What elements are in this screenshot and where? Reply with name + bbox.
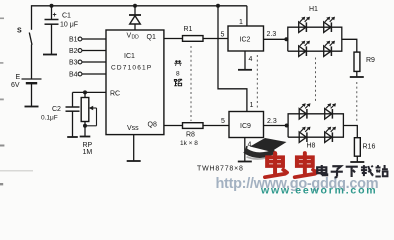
svg-text:10 μF: 10 μF	[60, 22, 78, 29]
ground (IC2 pin4)	[238, 69, 252, 71]
svg-text:Vss: Vss	[127, 125, 139, 132]
IC1 box CD71061P	[106, 30, 164, 135]
svg-text:B3: B3	[69, 60, 78, 67]
svg-text:8: 8	[176, 71, 180, 78]
capacitor C1	[51, 6, 53, 20]
top supply rail	[32, 5, 247, 7]
svg-text:H1: H1	[309, 6, 318, 13]
capacitor C2	[72, 92, 74, 107]
dashed repetition line (H1..H8)	[315, 58, 317, 104]
svg-text:1M: 1M	[83, 149, 93, 156]
wire switch to battery	[31, 45, 33, 80]
watermark graduation cap	[245, 151, 275, 156]
wire H8 to R16	[343, 126, 357, 138]
svg-text:5: 5	[221, 118, 225, 125]
diode (VDD protection)	[134, 6, 136, 15]
svg-text:www.eeworm.com: www.eeworm.com	[260, 185, 377, 196]
dashed repetition line (R1..R8)	[190, 46, 192, 121]
node (rail/diode junction)	[133, 4, 137, 8]
resistor R9	[354, 52, 360, 71]
svg-text:C2: C2	[52, 106, 61, 113]
svg-text:B2: B2	[69, 48, 78, 55]
svg-text:+: +	[53, 12, 57, 19]
IC9 box	[229, 112, 264, 138]
wire IC9 pin2.3 to H8	[264, 125, 289, 127]
svg-text:B4: B4	[69, 72, 78, 79]
svg-text:R9: R9	[366, 57, 375, 64]
svg-text:DD: DD	[132, 35, 140, 41]
svg-text:2.3: 2.3	[267, 31, 277, 38]
svg-text:1: 1	[250, 102, 254, 109]
RC wire (C2/RP net to IC1)	[73, 91, 107, 93]
svg-text:IC2: IC2	[240, 37, 251, 44]
node (rail/C1 junction)	[50, 4, 54, 8]
node (RP top)	[83, 90, 87, 94]
svg-text:S: S	[17, 28, 22, 35]
svg-text:Q8: Q8	[148, 122, 157, 129]
wire left vertical upper	[31, 5, 33, 30]
svg-text:1: 1	[239, 19, 243, 26]
watermark CJK site name: 载	[361, 165, 373, 176]
ground (C2)	[67, 136, 78, 138]
svg-text:RC: RC	[110, 91, 120, 98]
wire R9 to ground	[356, 71, 358, 76]
node (H1 input)	[284, 37, 288, 41]
potentiometer RP 1M	[84, 92, 86, 97]
watermark red bug char 1	[265, 153, 287, 177]
watermark CJK site name: 子	[331, 166, 343, 177]
wire rail corner into IC2 pin1	[246, 6, 248, 26]
resistor R1	[183, 36, 204, 42]
node (H8 input)	[285, 124, 289, 128]
wire IC2 pin4 to ground	[244, 51, 246, 70]
svg-text:2.3: 2.3	[267, 118, 277, 125]
wire IC9 pin4 to ground	[244, 138, 246, 162]
svg-text:IC1: IC1	[124, 53, 135, 60]
svg-text:C1: C1	[62, 13, 71, 20]
switch S	[29, 33, 32, 45]
svg-text:6V: 6V	[11, 82, 20, 89]
wire R1 to IC2 pin5	[203, 38, 228, 40]
svg-text:TWH8778×8: TWH8778×8	[197, 166, 244, 173]
node (rail/IC9 feed junction)	[216, 4, 220, 8]
svg-text:R1: R1	[184, 26, 193, 33]
wire Q8 to R8	[164, 125, 183, 127]
dashed repetition line (IC2..IC9)	[256, 55, 258, 108]
resistor R16	[354, 138, 360, 157]
wire H1 to R9	[342, 39, 357, 52]
ground (R9)	[350, 76, 364, 78]
wire Vss to ground	[133, 135, 135, 161]
svg-text:H8: H8	[307, 143, 316, 150]
共8路 annotation	[174, 60, 181, 65]
wire IC2 pin2.3 to H1	[264, 38, 288, 40]
svg-text:R16: R16	[363, 144, 376, 151]
watermark CJK site name: 电	[317, 165, 327, 175]
scan artifacts	[0, 18, 4, 20]
svg-text:0.1μF: 0.1μF	[41, 115, 58, 122]
svg-text:5: 5	[221, 32, 225, 39]
svg-text:E: E	[16, 74, 21, 81]
wire battery to ground	[31, 83, 33, 106]
svg-text:R8: R8	[186, 132, 195, 139]
wire Q1 to R1	[164, 38, 183, 40]
ground (IC9 pin4)	[238, 161, 252, 163]
ground (Vss)	[127, 160, 141, 162]
dashed repetition line (R9..R16)	[356, 82, 358, 123]
IC2 box	[228, 26, 264, 51]
svg-text:4: 4	[248, 142, 252, 149]
svg-text:1k × 8: 1k × 8	[180, 140, 198, 147]
watermark red bug char 2	[295, 153, 317, 177]
ground (RP)	[80, 136, 91, 138]
ground (R16)	[350, 161, 364, 163]
ground (battery)	[25, 106, 39, 108]
watermark CJK site name: 下	[346, 167, 358, 177]
svg-text:RP: RP	[83, 142, 93, 149]
svg-text:B1: B1	[69, 37, 78, 44]
battery E 6V	[22, 78, 42, 80]
watermark CJK site name: 站	[375, 165, 387, 176]
wire R16 to ground	[356, 156, 358, 162]
resistor R8	[183, 123, 204, 129]
wire rail down to IC9 pin1 branch	[218, 6, 247, 112]
svg-text:IC9: IC9	[240, 123, 251, 130]
svg-text:Q1: Q1	[147, 34, 156, 41]
svg-text:4: 4	[249, 56, 253, 63]
LED group H8	[288, 114, 343, 137]
ground (C1)	[43, 54, 57, 56]
svg-text:CD71061P: CD71061P	[111, 65, 152, 72]
wire R8 to IC9 pin5	[203, 125, 229, 127]
